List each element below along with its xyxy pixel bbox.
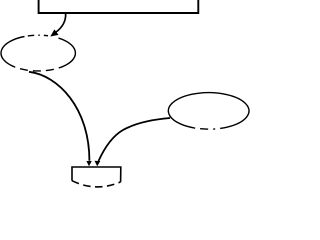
- ellipse A (top-left, dash-dot top, dashed bottom): [1, 35, 75, 71]
- rectangle (bottom, dashed sagging bottom edge): [72, 167, 121, 187]
- arrow from ellipse A to rectangle: [29, 72, 92, 167]
- arrow from ellipse B to rectangle: [95, 118, 171, 166]
- top box (clipped at top edge): [39, 0, 199, 13]
- arrow from top box to ellipse A: [50, 13, 65, 37]
- ellipse B (right, dash-dot bottom): [168, 93, 249, 130]
